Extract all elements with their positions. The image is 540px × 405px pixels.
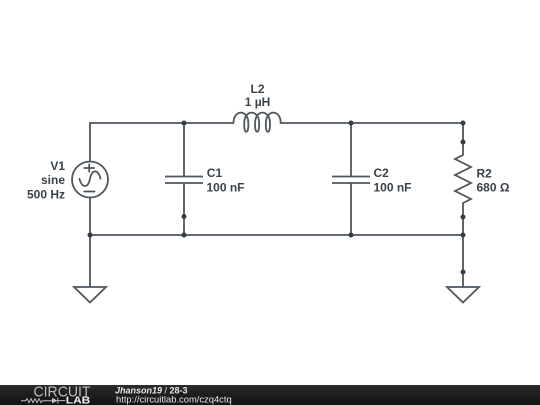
svg-text:V1: V1 [50,159,65,173]
svg-text:R2: R2 [477,166,493,180]
capacitor C1 [165,123,245,235]
svg-text:100 nF: 100 nF [374,180,412,194]
ground (right) [447,287,479,303]
node junction C1 top [182,121,187,126]
node junction C2 top [349,121,354,126]
node R2 top pin [461,140,466,145]
svg-text:C2: C2 [374,166,390,180]
node junction C1 bottom rail [182,233,187,238]
wire R2 bottom pin to bottom rail [462,217,464,235]
wire bottom rail [90,234,463,236]
svg-text:1 µH: 1 µH [245,95,271,109]
voltage source V1 [27,159,108,202]
node R2 bottom pin [461,215,466,220]
wire top-left vertical (V1 top to top rail) [90,123,184,162]
wire right ground lead lower [462,272,464,294]
node junction bottom left [88,233,93,238]
node C1 bottom pin [182,214,187,219]
CircuitLab logo [21,384,91,405]
node right ground pin [461,270,466,275]
node corner top right [461,121,466,126]
wire right vertical (corner to R2 top pin) [462,123,464,142]
inductor L2 [234,82,283,132]
svg-text:sine: sine [41,173,65,187]
svg-text:500 Hz: 500 Hz [27,188,65,202]
svg-text:L2: L2 [250,82,264,96]
svg-text:100 nF: 100 nF [207,180,245,194]
svg-text:680 Ω: 680 Ω [477,181,510,195]
svg-text:C1: C1 [207,166,223,180]
wire top rail right segment (C2 to corner) [351,122,463,124]
wire top rail middle segment (L2 to C2) [283,122,351,124]
svg-text:LAB: LAB [66,396,91,405]
wire left ground lead [89,235,91,287]
node bottom rail right [461,233,466,238]
resistor R2 [455,142,510,217]
wire V1 bottom lead [89,198,91,236]
wire right ground lead upper [462,235,464,272]
ground (left) [74,287,106,303]
capacitor C2 [332,123,412,235]
svg-text:http://circuitlab.com/czq4ctq: http://circuitlab.com/czq4ctq [116,393,232,404]
node junction C2 bottom [349,233,354,238]
wire top rail left segment (C1 to L2) [184,122,233,124]
footer bar [0,385,540,405]
